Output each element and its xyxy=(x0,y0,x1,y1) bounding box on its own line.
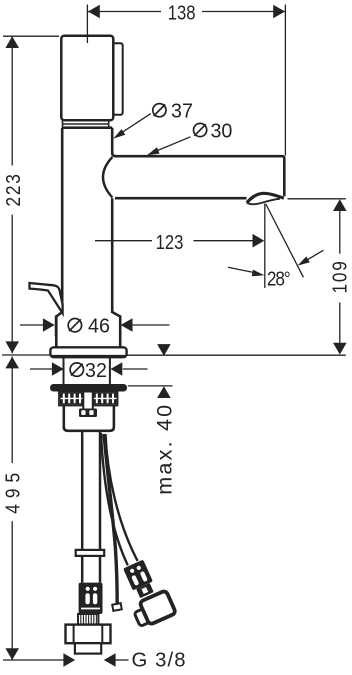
fastening section xyxy=(50,384,127,431)
arrow 28deg at vertical xyxy=(252,270,265,279)
rod xyxy=(104,434,117,605)
label o32 xyxy=(70,363,83,376)
arrow 28deg at diagonal xyxy=(296,256,310,268)
arrow 138 left xyxy=(88,5,100,19)
dim 223 line xyxy=(11,36,13,165)
dim 28 stream diagonal xyxy=(266,204,304,277)
lever xyxy=(30,283,63,313)
hose knurled neck xyxy=(78,614,98,625)
dim 123 xyxy=(95,240,152,242)
dim max40 xyxy=(128,385,173,387)
arrow 109 top xyxy=(333,199,347,211)
straight hose crimp xyxy=(79,583,103,614)
svg-text:223: 223 xyxy=(2,174,25,206)
label o46 xyxy=(68,319,81,332)
svg-text:28°: 28° xyxy=(267,267,291,290)
arrow max40 bottom xyxy=(157,386,171,398)
handle xyxy=(61,36,113,121)
svg-text:123: 123 xyxy=(156,230,184,253)
arrow 223 bottom xyxy=(5,341,19,353)
angled hose crimp + nut xyxy=(123,560,157,600)
hoses xyxy=(66,431,177,654)
label o37 xyxy=(153,104,166,117)
arrow 495 bottom xyxy=(5,648,19,660)
angled hose G3/8 nut xyxy=(139,590,176,625)
dim G38 line xyxy=(3,659,64,661)
arrow 223 top xyxy=(5,36,19,48)
sealing washer xyxy=(50,384,127,392)
dim 223 extension lines xyxy=(3,35,59,37)
arrow 138 right xyxy=(273,5,285,19)
dim 28 vertical line xyxy=(264,204,266,289)
arrow o32 right xyxy=(111,362,123,376)
body column xyxy=(62,126,112,129)
dim 28 leaders xyxy=(228,267,253,272)
arrow leader o30 xyxy=(146,147,160,158)
aerator swoosh xyxy=(247,193,284,202)
dim o32 line xyxy=(30,368,52,370)
dim 138 extension lines xyxy=(86,5,88,44)
arrow G38 right xyxy=(104,653,116,667)
thread end xyxy=(75,643,101,653)
dim 109 xyxy=(288,198,346,200)
knurled nut xyxy=(59,392,118,406)
arrow o32 left xyxy=(52,362,64,376)
arrow G38 left xyxy=(63,653,75,667)
arrow max40 top xyxy=(157,344,171,356)
arrow o46 right xyxy=(121,318,133,332)
center tab xyxy=(83,392,93,410)
angled hose walls xyxy=(101,433,128,565)
dim 138 line xyxy=(87,11,161,13)
spout-body intersection bulge xyxy=(103,157,112,198)
svg-text:37: 37 xyxy=(171,100,193,122)
svg-text:495: 495 xyxy=(1,473,24,514)
dim 495 line xyxy=(11,357,13,463)
base shoulders xyxy=(56,312,62,347)
dim o46 line xyxy=(20,324,44,326)
handle ring xyxy=(62,121,110,128)
spout xyxy=(114,156,284,196)
arrow o46 left xyxy=(43,318,55,332)
angled hose thread end xyxy=(134,605,158,627)
arrow 495 top xyxy=(5,357,19,369)
straight hose walls xyxy=(81,431,84,583)
arrow 109 bottom xyxy=(333,343,347,355)
base flange xyxy=(50,347,126,357)
svg-text:30: 30 xyxy=(210,120,232,142)
svg-text:46: 46 xyxy=(88,315,110,337)
arrow leader o37 xyxy=(111,129,125,141)
arrow 123 xyxy=(252,234,264,248)
svg-text:G 3/8: G 3/8 xyxy=(132,649,186,671)
svg-text:32: 32 xyxy=(85,360,107,382)
svg-text:138: 138 xyxy=(168,1,196,24)
mounting bracket xyxy=(64,404,114,431)
hose coupling band xyxy=(76,550,105,556)
leader o37 xyxy=(123,114,151,132)
shank tube xyxy=(63,357,65,384)
handle tab xyxy=(113,43,123,114)
G3/8 hex nut xyxy=(66,625,111,644)
svg-text:max. 40: max. 40 xyxy=(151,405,176,495)
rod tip xyxy=(112,603,122,611)
leader o30 xyxy=(158,137,191,151)
label o30 xyxy=(194,123,207,136)
svg-text:109: 109 xyxy=(328,261,351,293)
clamp connector xyxy=(79,409,97,418)
